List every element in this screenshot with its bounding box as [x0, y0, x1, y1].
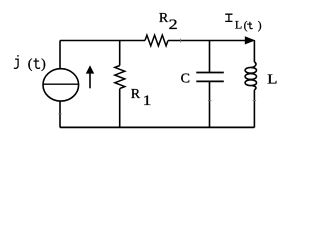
svg-text:): ) — [41, 57, 46, 72]
wire R1 bottom lead — [119, 89, 121, 128]
svg-text:R: R — [159, 11, 169, 26]
svg-text:(: ( — [244, 20, 248, 32]
tick mark C branch — [208, 100, 211, 102]
wire top left (source top to R2 left) — [60, 40, 145, 42]
svg-text:C: C — [181, 71, 190, 86]
label j(t) — [14, 55, 46, 72]
tick mark L branch — [253, 100, 256, 102]
resistor R2 — [145, 35, 168, 46]
svg-text:R: R — [131, 87, 141, 102]
current arrow I_L(t) head — [245, 36, 256, 44]
tick mark top wire — [179, 39, 181, 43]
wire source top lead — [59, 41, 61, 70]
wire L top lead — [253, 41, 255, 63]
svg-text:2: 2 — [169, 17, 178, 33]
capacitor C — [196, 73, 224, 82]
source direction arrow — [86, 65, 94, 88]
wire source bottom lead — [59, 101, 61, 128]
current source j(t) — [43, 69, 79, 101]
wire L bottom lead — [253, 90, 255, 128]
tick mark source branch — [58, 113, 61, 115]
wire R1 top lead — [119, 41, 121, 66]
label R1 — [131, 87, 152, 109]
wire bottom — [60, 126, 254, 128]
wire C top lead — [209, 41, 211, 73]
label R2 — [159, 11, 178, 33]
svg-text:L: L — [235, 18, 242, 32]
svg-text:1: 1 — [143, 93, 152, 109]
svg-text:): ) — [258, 20, 262, 32]
inductor L — [245, 62, 256, 90]
wire top right (R2 right to L branch corner) — [168, 40, 246, 42]
svg-text:L: L — [267, 72, 277, 87]
svg-text:(: ( — [28, 57, 33, 72]
wire C bottom lead — [209, 81, 211, 127]
resistor R1 — [115, 66, 125, 89]
label I_L(t) — [225, 14, 262, 32]
